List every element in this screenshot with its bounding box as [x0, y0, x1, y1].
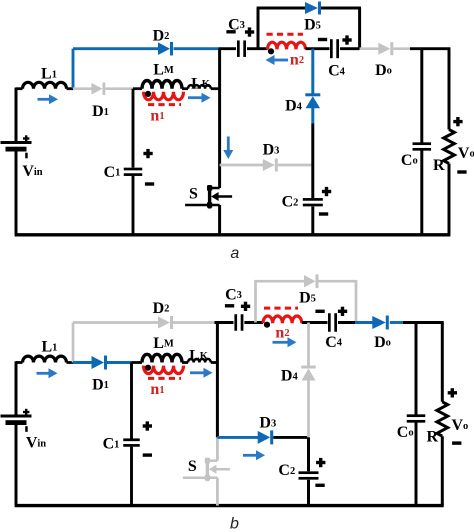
- svg-text:S: S: [188, 458, 197, 475]
- wire node to D1 gray (a): [73, 87, 92, 90]
- wire D4 branch blue lower (a): [311, 108, 314, 124]
- battery Vin (a): [1, 135, 32, 158]
- wire D3 left gray (a): [220, 164, 263, 167]
- capacitor Co (b): [407, 414, 426, 422]
- wire loop left riser (a): [257, 8, 260, 49]
- current arrow after L1 (b): [37, 368, 58, 378]
- winding n1 (a): [144, 92, 184, 100]
- wire D2 to junction (b): [173, 321, 217, 324]
- bottom rail (a): [15, 233, 451, 236]
- minus C4 (a): [318, 38, 327, 41]
- wire L1 to node (b): [67, 361, 75, 364]
- wire D4 branch gray upper (b): [307, 323, 310, 369]
- wire C2 to rail (b): [307, 480, 310, 506]
- wire D1 to node C1/LM (b): [107, 361, 132, 364]
- core line n2 (b): [264, 307, 298, 310]
- svg-text:a: a: [230, 245, 239, 262]
- current arrow after L1 (a): [38, 94, 59, 104]
- diode D1 (b): [92, 356, 108, 370]
- diode D3 (b): [258, 430, 274, 444]
- wire gray riser to D2 (b): [72, 323, 75, 363]
- capacitor C2 (a): [303, 198, 323, 206]
- wire R branch lower (b): [441, 436, 444, 505]
- polarity dot n1 (a): [145, 91, 151, 97]
- plus Vo (b): [448, 388, 457, 397]
- wire gray to D2 (b): [73, 321, 158, 324]
- wire to Do blue (b): [355, 321, 373, 324]
- current arrow after LK (a): [188, 93, 211, 103]
- inductor LK (a): [188, 85, 211, 89]
- mosfet S (a): [185, 185, 232, 209]
- wire C3 to n2 (a): [247, 47, 268, 50]
- wire C3 to n2 (b): [244, 321, 263, 324]
- wire mosfet to rail gray (b): [216, 478, 219, 506]
- diode Do (a): [378, 42, 393, 55]
- svg-text:b: b: [230, 516, 239, 532]
- wire rail to L1 (a): [16, 87, 23, 90]
- current arrow n2 right (b): [273, 337, 297, 347]
- wire left rail lower (b): [15, 424, 18, 506]
- diode D3 (a): [263, 159, 278, 172]
- plus C1 (b): [143, 421, 152, 430]
- plus Vo (a): [453, 117, 462, 126]
- wire rail to L1 (b): [16, 361, 23, 364]
- capacitor Co (a): [413, 142, 432, 150]
- capacitor C2 (b): [299, 471, 319, 479]
- plus C2 (b): [316, 458, 325, 467]
- minus C1 (a): [145, 182, 154, 185]
- wire D3 left blue (b): [217, 436, 258, 439]
- wire Co branch lower (b): [415, 423, 418, 506]
- wire blue riser to D2 (a): [72, 49, 75, 89]
- wire node down to C1 (a): [132, 89, 135, 168]
- inductor LM (b): [142, 354, 182, 362]
- minus C3 (b): [225, 304, 234, 307]
- diode D5 (a): [305, 2, 321, 15]
- minus C2 (a): [319, 212, 328, 215]
- wire n2 to C4 (b): [302, 321, 328, 324]
- svg-text:S: S: [189, 185, 198, 202]
- wire R branch upper (a): [448, 49, 451, 130]
- battery Vin (b): [1, 409, 32, 432]
- minus Vo (b): [452, 441, 461, 444]
- wire node down to C1 (b): [130, 363, 133, 439]
- wire C1 to rail (a): [132, 176, 135, 235]
- wire LK to switch column (a): [211, 87, 220, 90]
- wire C4 to loop junction (a): [340, 47, 360, 50]
- resistor R (b): [437, 402, 448, 436]
- wire Do out gray (a): [393, 47, 410, 50]
- inductor L1 (b): [23, 356, 67, 362]
- diode D4 (b): [301, 366, 316, 381]
- wire D4 branch blue upper (a): [311, 49, 314, 96]
- diode D4 (a): [305, 93, 320, 108]
- wire to output node (b): [403, 321, 444, 324]
- wire loop left riser gray (b): [254, 281, 257, 322]
- wire left rail upper (b): [15, 361, 18, 416]
- core line n2 (a): [267, 33, 304, 36]
- diode D2 (b): [158, 316, 173, 329]
- wire node to LM (b): [132, 361, 143, 364]
- capacitor C3 (b): [234, 314, 243, 331]
- wire L1 to node (a): [67, 87, 75, 90]
- wire Co branch lower (a): [420, 151, 423, 235]
- resistor R (a): [444, 130, 455, 164]
- wire switch column (a): [218, 49, 221, 188]
- wire loop top left (a): [257, 7, 305, 10]
- minus C1 (b): [143, 453, 152, 456]
- wire left rail upper (a): [15, 88, 18, 144]
- wire R branch upper (b): [441, 323, 444, 402]
- diode D1 (a): [92, 82, 106, 95]
- plus C4 (b): [338, 307, 347, 316]
- wire loop top left gray (b): [254, 280, 304, 283]
- inductor LK (b): [188, 359, 211, 363]
- plus C3 (a): [245, 27, 254, 36]
- bottom rail (b): [15, 504, 444, 507]
- capacitor C1 (a): [124, 168, 143, 176]
- capacitor C3 (a): [237, 40, 246, 57]
- minus C4 (b): [315, 310, 324, 313]
- current arrow down (a): [223, 137, 233, 160]
- inductor L1 (a): [23, 82, 67, 88]
- polarity dot n1 (b): [145, 365, 151, 371]
- plus C2 (a): [322, 187, 331, 196]
- wire Do out blue (b): [390, 321, 403, 324]
- winding n2 (b): [263, 316, 302, 323]
- wire left rail lower (a): [15, 151, 18, 235]
- wire Co branch upper (b): [415, 323, 418, 415]
- diode Do (b): [372, 316, 389, 330]
- current arrow after D3 (b): [243, 450, 265, 460]
- wire loop top right gray (b): [319, 280, 358, 283]
- wire D1 to node C1/LM (a): [106, 87, 134, 90]
- wire switch column (b): [216, 323, 219, 438]
- wire loop top right (a): [321, 7, 361, 10]
- plus C3 (b): [241, 302, 250, 311]
- minus Vo (a): [457, 170, 466, 173]
- wire to Do gray (a): [360, 47, 379, 50]
- wire loop right riser gray (b): [355, 281, 358, 322]
- wire C4 to loop junction (b): [338, 321, 356, 324]
- wire C1 to rail (b): [130, 447, 133, 506]
- wire mosfet to rail (a): [218, 205, 221, 235]
- plus C1 (a): [143, 149, 152, 158]
- wire loop right riser (a): [358, 8, 361, 49]
- current arrow after LK (b): [190, 368, 213, 378]
- wire D4 to C2 (a): [311, 124, 314, 199]
- wire C2 to rail (a): [311, 207, 314, 235]
- wire R branch lower (a): [448, 164, 451, 235]
- capacitor C4 (a): [330, 39, 339, 58]
- wire node to D1 blue (b): [73, 361, 92, 364]
- wire D4 branch gray lower (b): [307, 380, 310, 437]
- wire to output node (a): [410, 47, 450, 50]
- diode D2 (a): [158, 42, 173, 56]
- plus C4 (a): [342, 35, 351, 44]
- wire n2 to C4 (a): [306, 47, 330, 50]
- wire LM to LK (a): [182, 87, 188, 90]
- winding n1 (b): [144, 366, 184, 374]
- current arrow n2 left (a): [266, 55, 289, 65]
- minus C3 (a): [226, 30, 235, 33]
- svg-text:R: R: [427, 429, 439, 446]
- winding n2 (a): [268, 42, 306, 49]
- wire blue to D2 (a): [73, 47, 158, 50]
- core line n1 (a): [148, 103, 181, 106]
- wire LM to LK (b): [182, 361, 188, 364]
- polarity dot n2 (a): [268, 48, 274, 54]
- diode D5 (b): [304, 274, 319, 288]
- wire D2 to junction (a): [174, 47, 219, 50]
- wire drain gray (b): [216, 437, 219, 460]
- wire junction to C3 (b): [215, 321, 234, 324]
- wire LK to switch column (b): [211, 361, 218, 364]
- polarity dot n2 (b): [264, 322, 270, 328]
- wire D3 right gray (a): [278, 164, 313, 167]
- capacitor C4 (b): [328, 313, 337, 332]
- capacitor C1 (b): [123, 438, 140, 446]
- wire Co branch upper (a): [420, 49, 423, 143]
- svg-text:R: R: [433, 157, 445, 174]
- wire D3 right (b): [273, 436, 308, 439]
- wire node to LM (a): [133, 87, 142, 90]
- wire D3 node to C2 (b): [307, 437, 310, 471]
- inductor LM (a): [142, 80, 182, 88]
- minus C2 (b): [315, 484, 324, 487]
- wire junction to C3 (a): [219, 47, 237, 50]
- core line n1 (b): [148, 377, 181, 380]
- mosfet S (b): [183, 458, 230, 482]
